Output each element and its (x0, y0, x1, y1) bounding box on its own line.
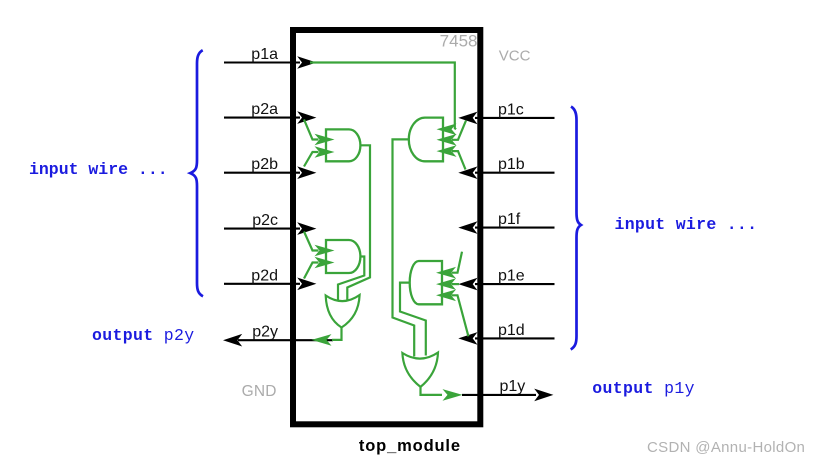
svg-text:p2b: p2b (251, 156, 278, 173)
net p1c to U3 wire (452, 121, 466, 140)
and-gate U3 (p1a p1c p1b) mirrored (409, 118, 443, 162)
pin p1c wire (458, 101, 554, 124)
svg-text:p1b: p1b (498, 156, 525, 173)
net p1a green wire (310, 63, 456, 130)
svg-text:p1y: p1y (500, 378, 526, 395)
svg-text:p2y: p2y (252, 324, 278, 341)
net U1 output wire to OR U5 (347, 145, 370, 300)
arrow into U3 input 1 (437, 124, 457, 136)
svg-text:input wire ...: input wire ... (29, 160, 168, 179)
arrow into U4 input 3 (436, 290, 456, 302)
net U5 output wire (332, 328, 342, 340)
pin p2d wire (224, 267, 316, 290)
net U3 output wire to OR U6 (393, 139, 415, 356)
svg-text:p2d: p2d (251, 267, 278, 284)
arrow out p2y (312, 334, 332, 346)
net p1d to U4 wire (452, 295, 469, 336)
arrow into U3 input 2 (437, 134, 457, 146)
or-gate U5 (outputs p2y) (326, 295, 360, 328)
svg-text:p1a: p1a (251, 46, 278, 63)
pin p1e wire (458, 268, 554, 291)
svg-text:p1d: p1d (498, 322, 525, 339)
pin p2a wire (224, 101, 316, 124)
svg-text:input wire ...: input wire ... (615, 215, 758, 234)
arrow into U2 input 1 (315, 245, 335, 257)
svg-text:CSDN @Annu-HoldOn: CSDN @Annu-HoldOn (647, 439, 805, 456)
arrow into U1 input 1 (315, 134, 335, 146)
svg-text:p1f: p1f (498, 211, 521, 228)
pin p2b wire (224, 156, 316, 179)
net p2d to U2 wire (304, 263, 319, 279)
arrow into U3 input 3 (437, 145, 457, 157)
input group brace left (190, 50, 203, 296)
svg-text:p2a: p2a (251, 101, 278, 118)
and-gate U4 (p1f p1e p1d) mirrored (410, 261, 442, 304)
chip body top_module (7458) outline (293, 30, 480, 424)
pin p1a wire (224, 46, 316, 69)
arrow into U4 input 2 (436, 278, 456, 290)
pin p1f wire (458, 211, 554, 234)
svg-text:top_module: top_module (359, 437, 461, 455)
pin p2c wire (224, 212, 316, 235)
arrow into U1 input 2 (315, 146, 335, 158)
svg-text:VCC: VCC (499, 47, 531, 64)
net p1e to U4 wire (452, 283, 460, 285)
net p2c to U2 wire (304, 232, 319, 251)
svg-text:output p1y: output p1y (592, 379, 695, 398)
or-gate U6 (outputs p1y) (402, 353, 438, 387)
svg-text:output p2y: output p2y (92, 326, 195, 345)
arrow into U2 input 2 (315, 257, 335, 269)
svg-text:7458: 7458 (440, 32, 478, 51)
net p2b to U1 wire (304, 152, 319, 167)
net p1b to U3 wire (452, 151, 466, 169)
arrow out p1y (443, 389, 463, 401)
and-gate U1 (p2a AND p2b) (326, 129, 360, 161)
net U6 output wire (421, 387, 443, 395)
svg-text:p2c: p2c (252, 212, 278, 229)
net p2a to U1 wire (304, 120, 319, 140)
svg-text:p1e: p1e (498, 268, 525, 285)
pin p1d wire (458, 322, 554, 345)
and-gate U2 (p2c AND p2d) (326, 240, 360, 273)
net U2 output wire to OR U5 (338, 257, 364, 301)
net p1f to U4 wire (452, 252, 463, 273)
arrow into U4 input 1 (436, 267, 456, 279)
pin p2y output wire (223, 324, 333, 347)
pin p1y output wire (462, 378, 553, 401)
svg-text:GND: GND (242, 383, 277, 400)
pin p1b wire (458, 156, 554, 179)
net U4 output wire to OR U6 (400, 283, 426, 356)
input group brace right (571, 107, 581, 350)
svg-text:p1c: p1c (498, 101, 524, 118)
